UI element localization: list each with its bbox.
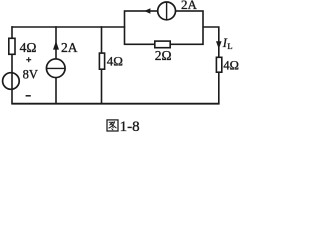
- arrow up of current source 2A: [53, 41, 59, 50]
- wire branch 3: [101, 26, 103, 103]
- arrow left of top current source: [144, 8, 150, 14]
- wire right connector: [203, 27, 219, 104]
- svg-text:4Ω: 4Ω: [107, 53, 123, 68]
- polarity plus: [26, 57, 31, 62]
- svg-text:1-8: 1-8: [120, 119, 140, 135]
- svg-text:2A: 2A: [61, 40, 78, 55]
- arrow down load current: [216, 41, 222, 49]
- resistor R1 4ohm left: [9, 38, 15, 54]
- wire bottom rail: [11, 103, 219, 105]
- wire parallel loop: [125, 11, 204, 44]
- resistor R2 2ohm: [155, 41, 170, 48]
- voltage source U 8V: [3, 73, 20, 90]
- svg-text:4Ω: 4Ω: [20, 40, 37, 55]
- wire branch 2: [55, 26, 57, 103]
- current source I2 2A top: [158, 2, 176, 20]
- svg-text:2Ω: 2Ω: [155, 48, 172, 63]
- wire top left rail: [11, 26, 125, 28]
- wire left branch: [11, 26, 13, 103]
- svg-text:L: L: [227, 41, 232, 51]
- svg-text:8V: 8V: [23, 67, 38, 81]
- polarity minus: [26, 95, 31, 97]
- resistor RL 4ohm right: [216, 57, 221, 72]
- caption glyph tu (figure): [107, 120, 118, 131]
- svg-text:2A: 2A: [181, 0, 198, 12]
- svg-text:4Ω: 4Ω: [223, 58, 239, 72]
- current source I1 2A: [46, 59, 65, 78]
- resistor R3 4ohm middle: [99, 53, 104, 69]
